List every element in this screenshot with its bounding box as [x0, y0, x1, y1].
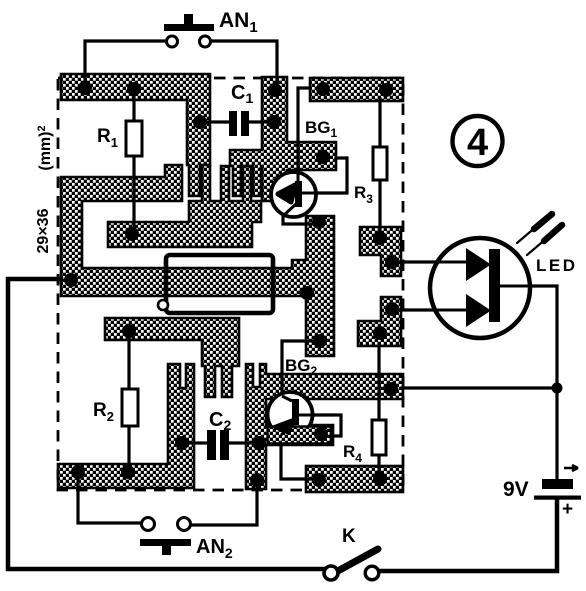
transistor BG2	[268, 392, 332, 444]
junction: R3 bottom on step pad A	[373, 231, 387, 245]
svg-text:4: 4	[467, 122, 488, 164]
wire: R4 bottom to bottom-right strip	[377, 455, 380, 475]
wire: step pad B to R4 top (crosses long strip)	[377, 344, 380, 420]
junction: centre vertical strip top (BG1 emitter)	[312, 215, 326, 229]
junction: R2 top on lower-mid strip	[122, 324, 136, 338]
wire: left column to C2 left plate	[186, 441, 206, 444]
svg-text:9V: 9V	[503, 478, 529, 501]
junction: top-right trace left	[316, 82, 330, 96]
resistor R3	[373, 147, 387, 180]
capacitor C2 plates	[207, 430, 216, 460]
wire: LED cathode to battery junction	[500, 286, 557, 388]
junction: battery node	[552, 383, 563, 394]
junction: centre strip / band	[300, 286, 314, 300]
junction: R4 feed on step pad B	[373, 326, 387, 340]
pushbutton AN2	[140, 518, 191, 556]
battery B1 9V	[534, 465, 581, 500]
junction: R4 bottom on bottom-right strip	[373, 472, 387, 486]
junction: R1 top	[127, 82, 141, 96]
junction: centre strip pad bottom (BG2 feed)	[313, 334, 327, 348]
junction: top-right trace right / R3 top	[379, 83, 393, 97]
PCB board outline (dashed)	[58, 78, 403, 490]
svg-text:(mm)2: (mm)2	[36, 125, 54, 170]
net/copper region: top-right trace (AN1 right / R3 top)	[310, 78, 403, 101]
polarity arrow	[564, 465, 578, 471]
resistor R1	[126, 121, 142, 156]
junction: AN1 right pad on middle strip	[268, 83, 282, 97]
junction: AN2 right on right column	[250, 473, 264, 487]
wire: lower-mid strip to R2 top	[127, 338, 130, 389]
net/copper region: bottom-left strip + left column (R2 bottom / C2 left / AN2)	[58, 364, 194, 488]
figure number badge 4	[453, 116, 503, 166]
LED cathode bar	[489, 249, 500, 322]
pushbutton AN1	[164, 14, 214, 47]
junction: long strip right	[384, 382, 398, 396]
junction: left supply trace / outer loop	[64, 273, 78, 287]
wire: R1 bottom to centre strip	[132, 156, 135, 234]
junction: R1 bottom on centre strip	[125, 227, 139, 241]
junction: R2 bottom on bottom-left strip	[121, 465, 135, 479]
junction: BG1 base pad	[316, 150, 330, 164]
wire: BG1 collector hook to base pad	[302, 158, 347, 193]
LED diode 1	[466, 248, 491, 281]
wire: step pad A to LED anode 1	[397, 260, 467, 263]
junction: LED feed 1 on step pad A	[385, 255, 399, 269]
wire: BG1 emitter down to centre vertical strip	[283, 214, 312, 224]
net/copper region: middle vertical strip (C1 right / BG1 base pad) with down combs	[230, 77, 336, 201]
wire: C1 right plate to middle strip	[249, 120, 273, 123]
wire: AN1 right contact to middle strip pad	[211, 41, 277, 86]
switch K	[324, 549, 379, 580]
net/copper region: lower-mid strip (R2 top) with down combs (region F)	[105, 318, 239, 397]
junction: BG2 collector pad	[314, 427, 328, 441]
junction: AN1 left on top-left trace	[78, 81, 92, 95]
LED diode 2	[466, 294, 491, 327]
wire: long strip to battery junction	[402, 386, 557, 389]
wire: trace arm to C1 left plate	[203, 120, 229, 123]
junction: C1 left on trace arm	[193, 115, 207, 129]
wire: R2 bottom to bottom-left strip	[127, 426, 130, 470]
junction: AN2 left on bottom-left strip	[71, 465, 85, 479]
wire: top-left trace to R1 top	[132, 92, 135, 121]
terminal circle on module	[158, 300, 168, 310]
wire: top-right trace down to R3	[378, 99, 381, 147]
net/copper region: top-left trace (AN1 / R1 top) with comb finger	[61, 74, 210, 196]
junction: LED feed 2 on step pad B	[385, 302, 399, 316]
junction: BG2 emitter on bottom-right strip	[312, 473, 326, 487]
svg-text:+: +	[562, 499, 573, 520]
junction: C1 right on middle strip	[267, 115, 281, 129]
net/copper region: step pad B (LED bottom feed / R4 top)	[358, 297, 401, 346]
wire: BG2 collector hook to collector pad	[299, 415, 341, 436]
wire: right column to AN2 right contact	[191, 486, 257, 525]
wire: battery junction to battery minus	[555, 388, 558, 479]
net/copper region: centre strip under R1 bottom with up combs (region E)	[108, 165, 261, 247]
net/copper region: right column + long strip + BG2 collector pad (region RC)	[246, 364, 403, 489]
wire: R3 bottom to step pad A	[378, 180, 381, 234]
transistor BG1	[271, 172, 316, 217]
component outline: module rectangle in board centre	[166, 255, 273, 313]
wire: step pad B to LED anode 2	[398, 308, 467, 311]
wire: C2 right plate to right column	[229, 441, 252, 444]
net/copper region: step pad A (R3 bottom / LED top feed)	[360, 227, 401, 276]
junction: C2 right on right column	[252, 436, 266, 450]
LED light rays	[517, 214, 562, 255]
net/copper region: left supply trace + nub + centre band + centre vertical strip (region 2)	[61, 165, 334, 356]
LED (dual diode)	[398, 238, 530, 338]
wire: outer loop left supply to switch left contact	[8, 279, 324, 569]
wire: bottom-left strip to AN2 left contact	[78, 476, 141, 523]
wire: AN1 left contact to top-left trace	[85, 41, 166, 85]
wire: BG1 base lead up to top-right trace	[298, 88, 310, 182]
svg-text:29×36: 29×36	[35, 208, 52, 253]
resistor R4	[372, 420, 386, 455]
wire: BG2 upper lead to centre strip pad	[282, 341, 312, 395]
svg-text:K: K	[342, 526, 356, 547]
copper patch under BG2 (collector strip over circle)	[268, 427, 332, 444]
junction: C2 left on left column	[175, 436, 189, 450]
resistor R2	[122, 389, 138, 426]
wire: BG2 emitter down to bottom-right strip	[281, 434, 313, 479]
capacitor C1 plates	[229, 111, 237, 136]
svg-text:LED: LED	[536, 256, 578, 275]
net/copper region: bottom-right strip (BG2 emitter / R4 bottom)	[306, 466, 403, 492]
wire: battery plus down to switch right contact	[379, 499, 557, 571]
